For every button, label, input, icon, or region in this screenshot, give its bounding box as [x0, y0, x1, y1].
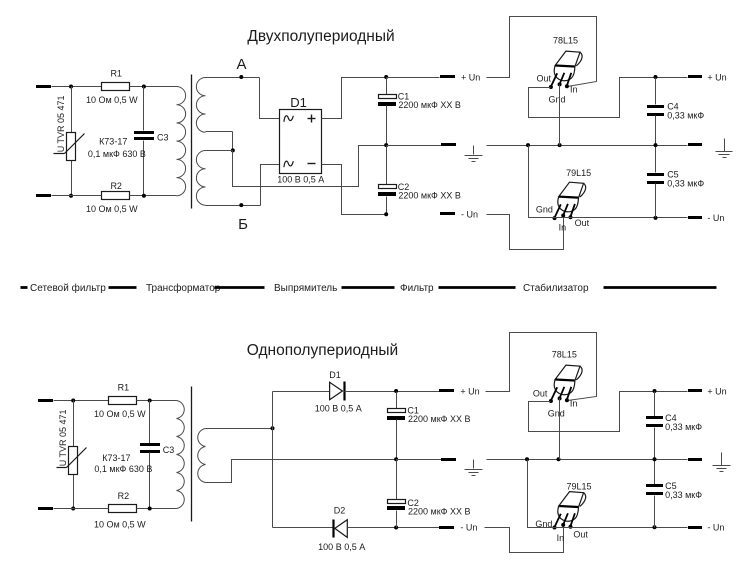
label Out	[537, 73, 552, 83]
svg-text:In: In	[559, 223, 567, 233]
node junction	[653, 389, 657, 393]
wire 78L15 out	[529, 392, 688, 432]
node junction	[271, 426, 275, 430]
node junction	[384, 75, 388, 79]
wire	[487, 459, 688, 461]
wire	[387, 145, 442, 147]
svg-text:А: А	[236, 56, 246, 73]
node junction	[654, 143, 658, 147]
transformer primary winding (circuit 2)	[177, 401, 185, 509]
svg-text:78L15: 78L15	[552, 350, 577, 360]
svg-text:10 Ом 0,5 W: 10 Ом 0,5 W	[94, 409, 146, 419]
svg-text:+ Un: + Un	[707, 386, 726, 396]
svg-text:Gnd: Gnd	[536, 205, 553, 215]
node junction	[71, 399, 75, 403]
svg-text:Выпрямитель: Выпрямитель	[274, 283, 337, 294]
wire	[487, 145, 688, 147]
terminal -Un right (circuit 1)	[688, 216, 702, 219]
terminal -Un left (circuit 1)	[440, 212, 455, 215]
wire	[322, 165, 387, 215]
svg-text:Out: Out	[537, 73, 552, 83]
node junction	[653, 525, 657, 529]
wire	[272, 392, 274, 528]
node junction	[394, 389, 398, 393]
svg-text:C3: C3	[163, 445, 175, 455]
wire center tap to filter	[233, 146, 387, 187]
legend label Трансформатор	[146, 282, 221, 294]
terminal: mains input bottom (circuit 1)	[36, 194, 51, 197]
svg-text:D1: D1	[329, 370, 341, 380]
node junction	[525, 457, 529, 461]
node junction	[71, 507, 75, 511]
wire to 78L15 input	[487, 17, 597, 87]
capacitor C2 (circuit 1)	[378, 146, 461, 215]
svg-text:2200 мкФ XX В: 2200 мкФ XX В	[408, 414, 471, 424]
wire 78L15 out	[529, 78, 688, 118]
legend label Стабилизатор	[523, 282, 589, 294]
label -Un	[461, 209, 478, 219]
svg-text:Фильтр: Фильтр	[400, 283, 434, 294]
svg-text:100 В 0,5 А: 100 В 0,5 А	[315, 404, 362, 414]
label Gnd	[536, 205, 553, 215]
wire	[387, 77, 440, 79]
wire	[397, 459, 442, 461]
ground	[465, 146, 483, 162]
terminal +Un right (circuit 2)	[688, 389, 702, 392]
capacitor C4 (circuit 2)	[646, 392, 702, 460]
wire	[322, 78, 387, 119]
wire to 79L15 input	[485, 526, 564, 553]
wire to 78L15 input	[486, 333, 597, 401]
svg-text:C3: C3	[157, 132, 169, 142]
svg-text:- Un: - Un	[460, 523, 477, 533]
svg-text:+ Un: + Un	[707, 72, 726, 82]
legend line	[439, 286, 516, 289]
wire	[54, 508, 109, 510]
svg-text:0,1 мкФ 630 В: 0,1 мкФ 630 В	[88, 149, 146, 159]
terminal -Un right (circuit 2)	[688, 526, 702, 529]
svg-text:R1: R1	[110, 69, 122, 79]
node junction	[654, 75, 658, 79]
svg-text:Сетевой фильтр: Сетевой фильтр	[30, 282, 106, 294]
svg-text:+ Un: + Un	[460, 386, 479, 396]
node junction	[148, 507, 152, 511]
svg-text:Out: Out	[575, 218, 590, 228]
svg-text:0,33 мкФ: 0,33 мкФ	[667, 178, 704, 188]
svg-text:- Un: - Un	[707, 213, 724, 223]
node junction	[384, 212, 388, 216]
svg-text:In: In	[570, 398, 578, 408]
wire	[261, 165, 280, 206]
capacitor C1 (circuit 2)	[387, 392, 471, 460]
ground	[713, 453, 731, 472]
terminal ground (circuit 2)	[441, 458, 456, 461]
wire	[348, 527, 440, 529]
transformer secondary winding (circuit 2)	[198, 429, 206, 483]
label -Un	[707, 523, 724, 533]
varistor RU TVR 05 471 (circuit 1)	[54, 87, 85, 196]
legend label Выпрямитель	[274, 283, 337, 294]
svg-text:In: In	[570, 84, 578, 94]
node junction	[142, 85, 146, 89]
node junction	[142, 194, 146, 198]
wire	[206, 150, 233, 152]
resistor R2 (circuit 2)	[94, 491, 146, 529]
capacitor C1 (circuit 1)	[378, 78, 461, 146]
svg-text:Трансформатор: Трансформатор	[146, 282, 221, 294]
svg-text:D2: D2	[334, 505, 346, 515]
svg-text:R2: R2	[110, 181, 122, 191]
wire	[206, 428, 273, 430]
wire 79L15 out	[555, 527, 688, 529]
svg-text:10 Ом 0,5 W: 10 Ом 0,5 W	[86, 204, 138, 214]
regulator U1 78L15 (circuit 1)	[549, 35, 582, 89]
label Gnd	[535, 519, 552, 529]
svg-text:10 Ом 0,5 W: 10 Ом 0,5 W	[86, 95, 138, 105]
svg-text:+ Un: + Un	[461, 72, 480, 82]
wire 78L15 gnd	[559, 85, 561, 146]
resistor R1 (circuit 1)	[86, 69, 138, 105]
svg-text:78L15: 78L15	[553, 35, 578, 45]
node center tap	[231, 148, 235, 152]
terminal ground right (circuit 1)	[688, 143, 702, 146]
svg-text:100 В 0,5 А: 100 В 0,5 А	[277, 174, 324, 184]
svg-text:К73-17: К73-17	[99, 137, 127, 147]
terminal +Un left (circuit 1)	[440, 75, 455, 78]
title: Однополупериодный	[247, 342, 398, 359]
svg-text:Out: Out	[533, 389, 548, 399]
varistor RU TVR 05 471 (circuit 2)	[57, 401, 87, 509]
node junction	[653, 457, 657, 461]
wire 79L15 out	[555, 217, 688, 219]
node junction	[558, 143, 562, 147]
svg-text:D1: D1	[290, 95, 307, 110]
label Out	[533, 389, 548, 399]
svg-text:Б: Б	[238, 216, 248, 233]
wire	[206, 132, 233, 151]
wire 78L15 gnd	[559, 399, 561, 460]
wire	[260, 78, 280, 119]
wire	[54, 400, 109, 402]
wire	[206, 205, 261, 207]
terminal: mains input top (circuit 1)	[36, 85, 51, 88]
svg-text:- Un: - Un	[707, 523, 724, 533]
node junction	[557, 457, 561, 461]
svg-text:79L15: 79L15	[567, 482, 592, 492]
svg-text:0,1 мкФ 630 В: 0,1 мкФ 630 В	[94, 464, 152, 474]
wire 79L15 gnd	[529, 146, 555, 218]
svg-text:10 Ом 0,5 W: 10 Ом 0,5 W	[94, 519, 146, 529]
wire	[130, 195, 177, 197]
svg-text:Двухполупериодный: Двухполупериодный	[247, 28, 394, 45]
wire	[130, 86, 177, 88]
wire	[52, 86, 102, 88]
svg-text:Однополупериодный: Однополупериодный	[247, 342, 398, 359]
node junction	[384, 143, 388, 147]
wire	[206, 77, 260, 79]
wire 79L15 gnd	[528, 460, 555, 528]
node junction	[148, 399, 152, 403]
svg-text:2200 мкФ XX В: 2200 мкФ XX В	[408, 507, 471, 517]
svg-text:100 В 0,5 А: 100 В 0,5 А	[318, 542, 365, 552]
transformer core	[191, 387, 193, 522]
transformer core	[191, 75, 193, 209]
label Out	[573, 529, 588, 539]
svg-text:0,33 мкФ: 0,33 мкФ	[665, 490, 702, 500]
svg-text:0,33 мкФ: 0,33 мкФ	[665, 422, 702, 432]
svg-text:2200 мкФ XX В: 2200 мкФ XX В	[398, 100, 461, 110]
regulator U4 79L15 (circuit 2)	[553, 482, 592, 530]
node junction	[394, 457, 398, 461]
label Out	[575, 218, 590, 228]
svg-text:Out: Out	[573, 529, 588, 539]
terminal +Un left (circuit 2)	[439, 389, 454, 392]
capacitor C4 (circuit 1)	[647, 78, 704, 146]
bridge rectifier D1 (circuit 1)	[277, 95, 324, 185]
label Gnd	[548, 409, 565, 419]
wire to 79L15 input	[487, 215, 564, 250]
node junction	[526, 143, 530, 147]
wire	[52, 195, 102, 197]
svg-text:0,33 мкФ: 0,33 мкФ	[667, 110, 704, 120]
resistor R2 (circuit 1)	[86, 181, 138, 214]
node junction	[69, 85, 73, 89]
wire	[137, 508, 177, 510]
svg-text:U TVR 05 471: U TVR 05 471	[58, 409, 68, 466]
label Gnd	[549, 94, 566, 104]
title: Двухполупериодный	[247, 28, 394, 45]
node junction	[69, 194, 73, 198]
node A	[236, 56, 246, 79]
capacitor C3 (circuit 1)	[88, 87, 169, 196]
ground	[465, 460, 483, 476]
regulator U2 79L15 (circuit 1)	[553, 168, 592, 220]
legend line	[109, 286, 137, 289]
svg-text:К73-17: К73-17	[102, 453, 130, 463]
terminal: mains input bottom (circuit 2)	[38, 507, 53, 510]
node junction	[394, 526, 398, 530]
diode D1 (circuit 2)	[315, 370, 362, 414]
terminal ground right (circuit 2)	[688, 458, 702, 461]
legend line	[604, 286, 717, 289]
svg-text:R2: R2	[118, 491, 130, 501]
label +Un	[707, 386, 726, 396]
transformer primary winding (circuit 1)	[177, 87, 186, 196]
svg-text:79L15: 79L15	[566, 168, 591, 178]
label +Un	[707, 72, 726, 82]
wire	[273, 527, 334, 529]
label In	[557, 533, 565, 543]
label -Un	[707, 213, 724, 223]
svg-text:R1: R1	[118, 383, 130, 393]
wire	[273, 391, 330, 393]
capacitor C5 (circuit 2)	[646, 460, 702, 528]
label In	[570, 398, 578, 408]
resistor R1 (circuit 2)	[94, 383, 146, 419]
terminal ground (circuit 1)	[441, 143, 456, 146]
transformer secondary winding lower (circuit 1)	[196, 151, 205, 206]
svg-text:U TVR 05 471: U TVR 05 471	[56, 95, 66, 152]
wire	[345, 391, 440, 393]
svg-text:In: In	[557, 533, 565, 543]
transformer secondary winding upper (circuit 1)	[196, 78, 205, 133]
wire	[137, 400, 177, 402]
terminal -Un left (circuit 2)	[439, 526, 454, 529]
terminal: mains input top (circuit 2)	[38, 399, 53, 402]
svg-text:- Un: - Un	[461, 209, 478, 219]
label -Un	[460, 523, 477, 533]
label +Un	[461, 72, 480, 82]
label In	[559, 223, 567, 233]
node B	[238, 203, 248, 233]
wire	[206, 460, 397, 483]
svg-text:2200 мкФ XX В: 2200 мкФ XX В	[398, 191, 461, 201]
label In	[570, 84, 578, 94]
ground	[716, 139, 733, 158]
terminal +Un right (circuit 1)	[688, 75, 702, 78]
node junction	[654, 216, 658, 220]
legend dash	[21, 286, 28, 289]
legend label Сетевой фильтр	[30, 282, 106, 294]
label +Un	[460, 386, 479, 396]
legend line	[342, 286, 395, 289]
legend line	[215, 286, 265, 289]
capacitor C2 (circuit 2)	[387, 460, 471, 528]
svg-text:Gnd: Gnd	[548, 409, 565, 419]
capacitor C5 (circuit 1)	[647, 146, 704, 218]
svg-text:Gnd: Gnd	[549, 94, 566, 104]
diode D2 (circuit 2)	[318, 505, 365, 552]
capacitor C3 (circuit 2)	[94, 401, 174, 509]
regulator U3 78L15 (circuit 2)	[549, 350, 582, 404]
legend label Фильтр	[400, 283, 434, 294]
svg-text:Стабилизатор: Стабилизатор	[523, 282, 589, 294]
